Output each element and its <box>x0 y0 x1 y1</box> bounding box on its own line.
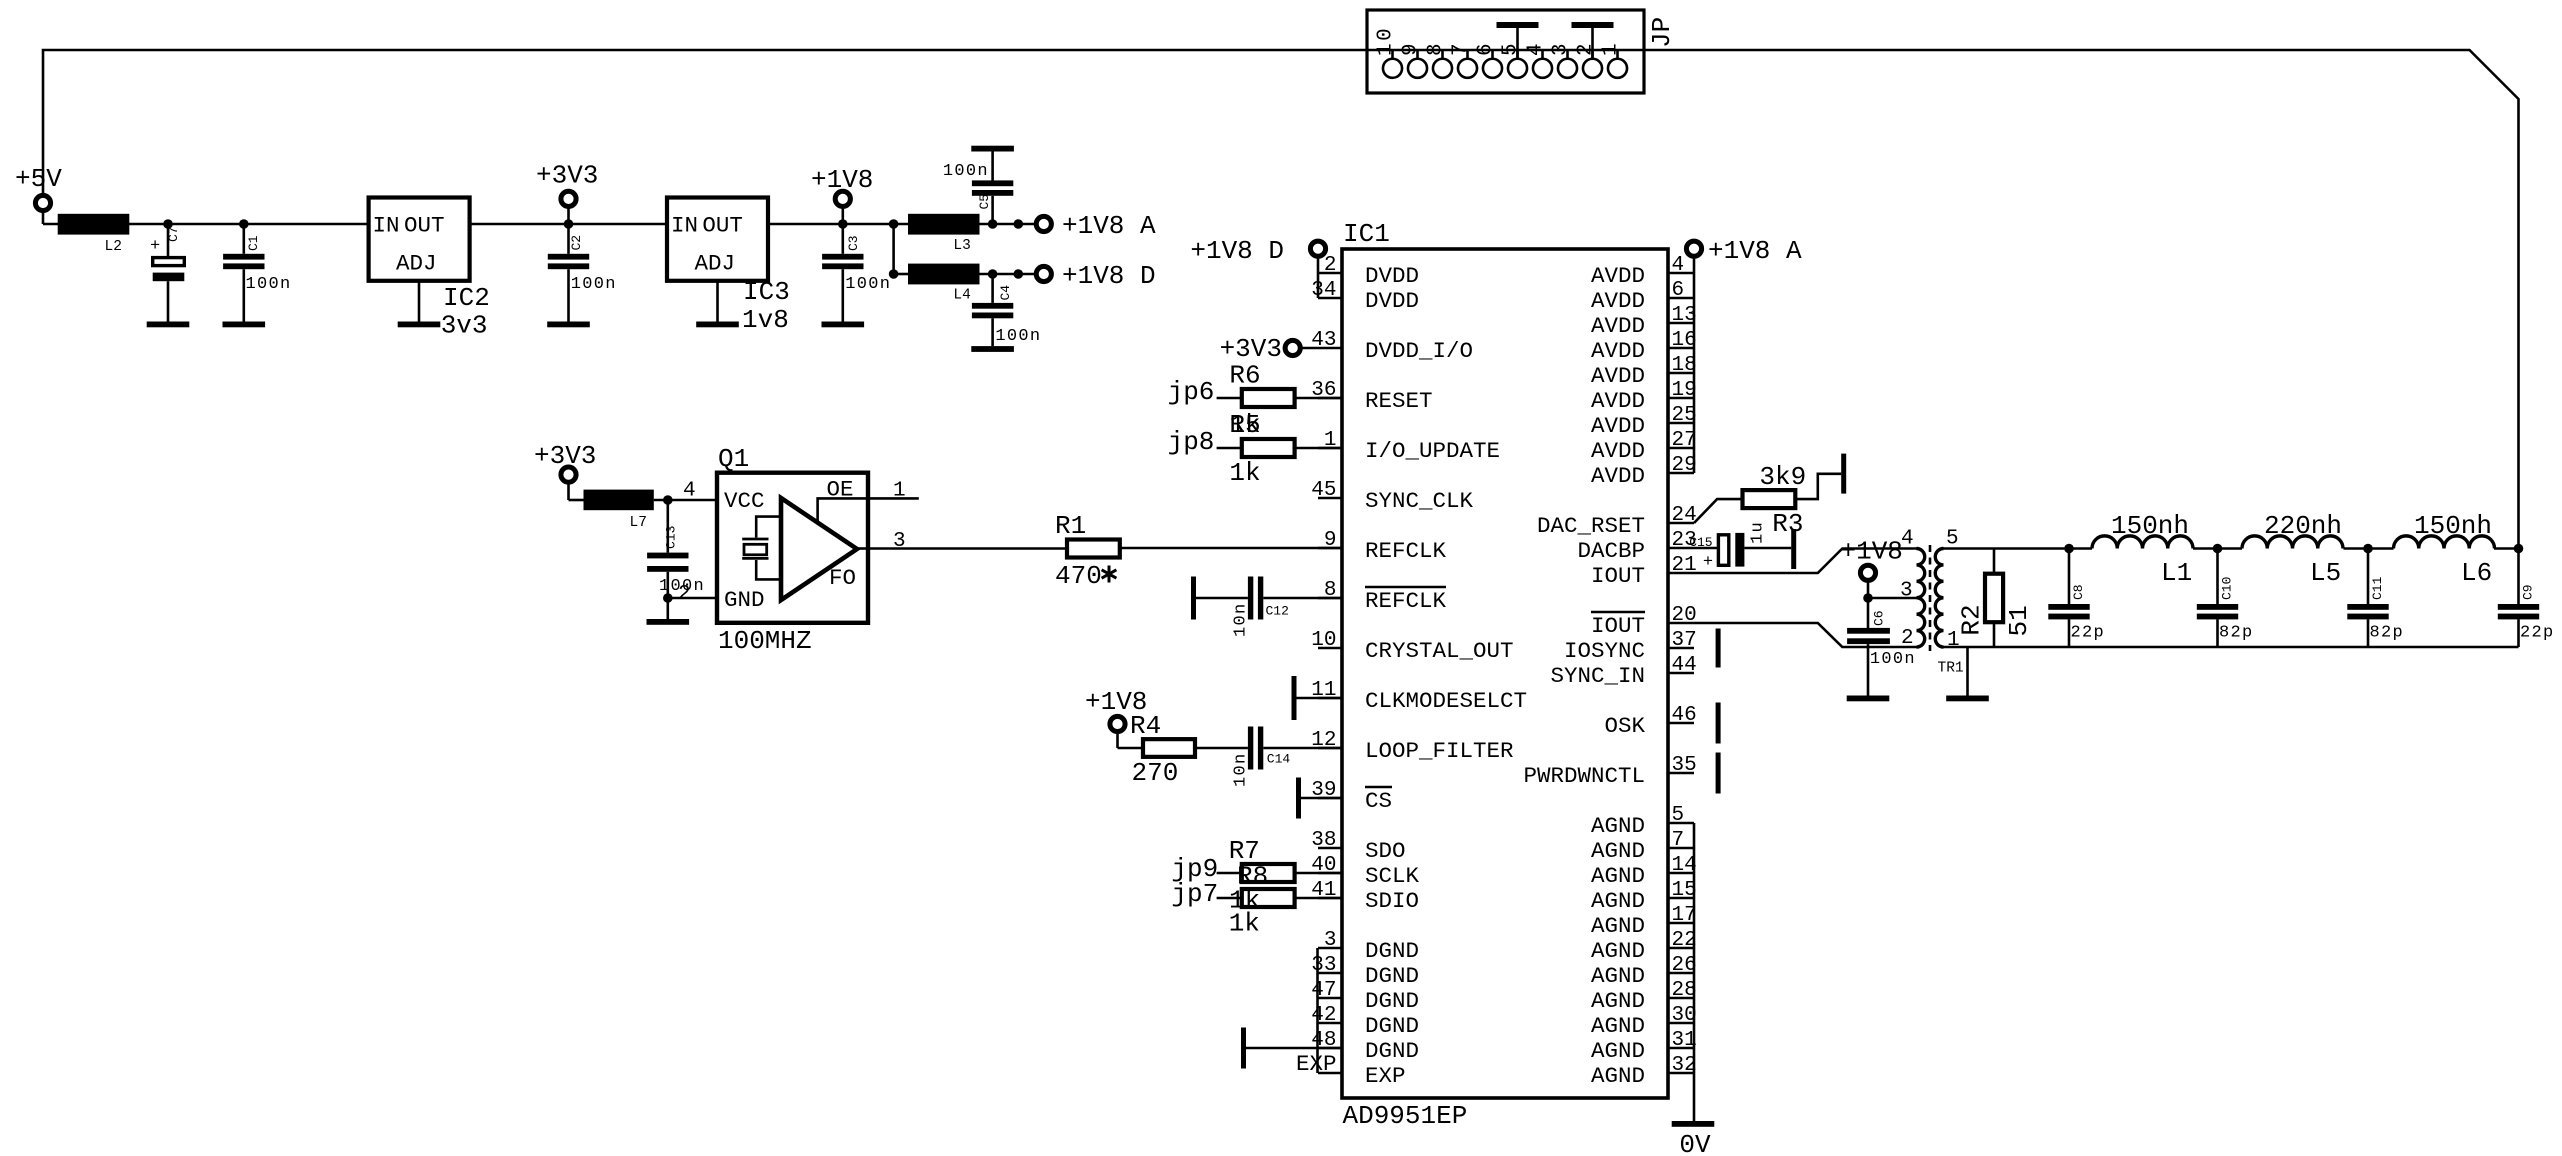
svg-text:36: 36 <box>1311 379 1336 402</box>
connector JP pin 4 <box>1533 59 1552 78</box>
svg-text:CS: CS <box>1365 788 1392 814</box>
connector JP pin 1 <box>1608 59 1627 78</box>
svg-text:IC2: IC2 <box>443 283 490 313</box>
svg-text:C6: C6 <box>1871 610 1886 626</box>
IC1 pin 11 CLKMODESELCT <box>1311 679 1527 714</box>
IC1 pin 37 IOSYNC <box>1564 629 1697 664</box>
junction <box>2363 544 2373 554</box>
svg-text:SDO: SDO <box>1365 838 1406 864</box>
junction <box>1014 219 1024 229</box>
svg-text:DGND: DGND <box>1365 988 1419 1014</box>
power terminal +3V3 <box>567 206 570 224</box>
power terminal +1V8 D ring <box>1310 241 1325 256</box>
svg-text:AGND: AGND <box>1591 1063 1645 1089</box>
capacitor C4 <box>972 274 1013 346</box>
ground <box>647 619 690 625</box>
svg-text:C14: C14 <box>1267 752 1291 767</box>
IC1 pin 12 LOOP_FILTER <box>1311 729 1513 764</box>
inductor L6 <box>2394 536 2495 549</box>
FO tap wire <box>857 547 868 550</box>
IC1 pin 8 REFCLK <box>1318 579 1447 614</box>
svg-text:IN: IN <box>671 213 698 239</box>
wire +3V3 to L7 <box>569 499 584 502</box>
svg-text:C7: C7 <box>166 226 181 242</box>
IC1 pin 17 AGND <box>1591 904 1697 939</box>
wire pin 39 to ground <box>1301 797 1342 800</box>
IC1 pin 32 AGND <box>1591 1054 1697 1089</box>
wire pin 23 to C15 <box>1694 547 1718 550</box>
IC1 pin 7 AGND <box>1591 829 1694 864</box>
svg-text:CLKMODESELCT: CLKMODESELCT <box>1365 688 1527 714</box>
ground (pin 35) <box>1716 753 1721 794</box>
IC1 pin 42 DGND <box>1311 1004 1419 1039</box>
svg-text:1v8: 1v8 <box>742 305 789 335</box>
ground <box>398 322 441 328</box>
svg-text:8: 8 <box>1425 41 1448 56</box>
svg-text:20: 20 <box>1672 604 1697 627</box>
svg-text:3: 3 <box>1324 929 1337 952</box>
capacitor C5 <box>972 151 1013 224</box>
transformer TR1 <box>1917 545 1944 651</box>
wire TR1 pin1 ground stub <box>1966 647 1969 696</box>
svg-text:OSK: OSK <box>1604 713 1645 739</box>
svg-text:L2: L2 <box>105 239 122 255</box>
svg-text:C1: C1 <box>246 235 261 251</box>
inductor L3 <box>908 214 980 235</box>
svg-text:+: + <box>1703 553 1715 572</box>
svg-text:3: 3 <box>1900 580 1913 603</box>
svg-text:R2: R2 <box>1956 604 1986 635</box>
svg-text:C8: C8 <box>2071 584 2086 600</box>
svg-text:REFCLK: REFCLK <box>1365 538 1447 564</box>
svg-text:AVDD: AVDD <box>1591 263 1645 289</box>
svg-text:100n: 100n <box>1870 650 1916 669</box>
svg-text:VCC: VCC <box>724 488 765 514</box>
wire L3 to terminal <box>980 223 1037 226</box>
svg-text:AVDD: AVDD <box>1591 463 1645 489</box>
svg-text:3: 3 <box>1550 41 1573 56</box>
svg-text:DVDD: DVDD <box>1365 288 1419 314</box>
svg-text:AGND: AGND <box>1591 1038 1645 1064</box>
wire R1 to IC1 REFCLK <box>1120 547 1342 550</box>
IC1 pin 44 SYNC_IN <box>1550 654 1696 689</box>
wire TR1 pin 5 to filter <box>1944 547 2093 550</box>
svg-text:8: 8 <box>1324 579 1337 602</box>
wire AVDD bus <box>1693 273 1696 473</box>
svg-text:AVDD: AVDD <box>1591 288 1645 314</box>
resistor R6 <box>1242 389 1295 407</box>
svg-text:2: 2 <box>1901 627 1914 650</box>
svg-text:+5V: +5V <box>15 164 62 194</box>
svg-text:4: 4 <box>1525 41 1548 56</box>
capacitor C2 <box>548 224 589 322</box>
oscillator Q1 <box>717 473 868 623</box>
svg-text:37: 37 <box>1672 629 1697 652</box>
capacitor C9 <box>2498 549 2539 648</box>
svg-text:4: 4 <box>683 480 696 503</box>
capacitor C15 (electrolytic 1u) <box>1718 533 1744 567</box>
IC1 pin 3 DGND <box>1318 929 1419 964</box>
connector JP pin 8 <box>1433 59 1452 78</box>
svg-text:1u: 1u <box>1748 521 1767 544</box>
svg-text:ADJ: ADJ <box>695 251 736 277</box>
svg-text:IOSYNC: IOSYNC <box>1564 638 1645 664</box>
svg-text:5: 5 <box>1500 41 1523 56</box>
power terminal +3V3 (Q1) <box>567 482 570 500</box>
ground (C15) <box>1791 529 1796 569</box>
svg-text:IC3: IC3 <box>743 277 790 307</box>
inductor L2 <box>58 214 130 235</box>
svg-text:SYNC_CLK: SYNC_CLK <box>1365 488 1474 514</box>
svg-text:33: 33 <box>1311 954 1336 977</box>
svg-text:EXP: EXP <box>1365 1063 1406 1089</box>
svg-text:12: 12 <box>1311 729 1336 752</box>
IC1 pin 27 AVDD <box>1591 429 1697 464</box>
IC1 pin 26 AGND <box>1591 954 1697 989</box>
junction <box>2064 544 2074 554</box>
OE tap wire <box>818 498 868 521</box>
resistor R4 <box>1143 739 1195 757</box>
svg-text:Q1: Q1 <box>718 444 749 474</box>
junction <box>564 219 574 229</box>
wire +1V8 to R4 <box>1118 747 1144 750</box>
capacitor C1 <box>223 224 264 322</box>
svg-text:3k9: 3k9 <box>1759 462 1806 492</box>
svg-text:OUT: OUT <box>702 213 743 239</box>
svg-text:SYNC_IN: SYNC_IN <box>1550 663 1645 689</box>
junction <box>663 593 673 603</box>
svg-text:51: 51 <box>2004 605 2034 636</box>
svg-text:AGND: AGND <box>1591 888 1645 914</box>
connector JP pin 2 <box>1583 59 1602 78</box>
svg-text:100n: 100n <box>246 275 292 294</box>
svg-text:C4: C4 <box>998 285 1013 301</box>
IC1 pin 35 PWRDWNCTL <box>1523 754 1696 789</box>
ground (R3) <box>1841 454 1846 494</box>
connector JP pin 5 <box>1508 59 1527 78</box>
resistor R3 <box>1743 490 1796 508</box>
junction <box>163 219 173 229</box>
IC1 pin 40 SCLK <box>1311 854 1419 889</box>
wire R4 to C14 <box>1195 747 1248 750</box>
ground (C12) <box>1191 577 1196 620</box>
svg-text:AGND: AGND <box>1591 938 1645 964</box>
svg-text:9: 9 <box>1324 529 1337 552</box>
wire to L4 <box>894 273 908 276</box>
IC1 pin 20 IOUT <box>1591 604 1697 639</box>
wire +5V rail <box>43 223 369 226</box>
IC1 pin 45 SYNC_CLK <box>1311 479 1473 514</box>
resistor R1 <box>1067 540 1120 558</box>
wire jp8 <box>1217 447 1242 450</box>
power terminal +1V8 D (IC1) <box>1317 256 1320 273</box>
svg-text:24: 24 <box>1672 504 1697 527</box>
svg-text:220nh: 220nh <box>2264 511 2342 541</box>
IC1 pin 34 DVDD <box>1311 279 1419 314</box>
svg-text:7: 7 <box>1672 829 1685 852</box>
resistor R5 <box>1242 439 1295 457</box>
ground (DGND) <box>1241 1028 1246 1069</box>
svg-text:L6: L6 <box>2461 558 2492 588</box>
wire C14 to pin 12 <box>1263 747 1342 750</box>
output terminal +1V8 D <box>1036 266 1051 281</box>
wire L6 to C9 <box>2494 547 2519 550</box>
svg-text:L3: L3 <box>953 238 970 254</box>
svg-text:39: 39 <box>1311 779 1336 802</box>
svg-text:AVDD: AVDD <box>1591 363 1645 389</box>
IC1 pin EXP EXP <box>1296 1051 1406 1089</box>
svg-text:2: 2 <box>1324 254 1337 277</box>
wire +3V3 rail <box>470 223 667 226</box>
svg-text:82p: 82p <box>2219 624 2254 643</box>
svg-text:C11: C11 <box>2370 576 2385 600</box>
svg-text:21: 21 <box>1672 554 1697 577</box>
connector JP pin 9 <box>1408 59 1427 78</box>
wire +1V8 rail <box>768 223 908 226</box>
svg-text:L4: L4 <box>953 288 970 304</box>
svg-text:1: 1 <box>1324 429 1337 452</box>
svg-text:10n: 10n <box>1232 602 1251 637</box>
svg-text:IOUT: IOUT <box>1591 563 1645 589</box>
svg-text:C5: C5 <box>977 194 992 210</box>
svg-text:DGND: DGND <box>1365 938 1419 964</box>
svg-text:1: 1 <box>1600 41 1623 56</box>
IC1 pin 30 AGND <box>1591 1004 1697 1039</box>
power terminal +5V <box>35 195 50 210</box>
IC1 pin 14 AGND <box>1591 854 1697 889</box>
wire Q1 OE pin 1 (n.c.) <box>868 497 919 500</box>
svg-text:100n: 100n <box>943 162 989 181</box>
svg-text:DGND: DGND <box>1365 963 1419 989</box>
capacitor C14 <box>1248 727 1263 770</box>
resistor R2 <box>1985 549 2003 648</box>
svg-text:AVDD: AVDD <box>1591 388 1645 414</box>
svg-text:C10: C10 <box>2220 577 2235 600</box>
svg-text:100n: 100n <box>845 275 891 294</box>
svg-text:EXP: EXP <box>1296 1051 1337 1077</box>
wire bottom rail <box>1944 646 2519 649</box>
svg-text:AGND: AGND <box>1591 913 1645 939</box>
svg-text:9: 9 <box>1400 41 1423 56</box>
connector JP pin 10 <box>1383 59 1402 78</box>
wire IC2 ADJ to ground <box>418 281 421 322</box>
svg-text:DGND: DGND <box>1365 1013 1419 1039</box>
svg-text:82p: 82p <box>2370 624 2405 643</box>
wire jp6 <box>1217 397 1242 400</box>
svg-text:OUT: OUT <box>404 213 445 239</box>
IC1 pin 48 DGND <box>1311 1029 1419 1064</box>
wire jp9 <box>1217 872 1242 875</box>
wire pin 24 to R3 <box>1694 499 1743 523</box>
svg-text:DGND: DGND <box>1365 1038 1419 1064</box>
inductor L5 <box>2242 536 2343 549</box>
wire L1 to C10 <box>2193 547 2242 550</box>
wire DGND bus <box>1316 948 1319 1073</box>
svg-text:4: 4 <box>1901 528 1914 551</box>
svg-text:48: 48 <box>1311 1029 1336 1052</box>
wire +5V / filter output net <box>43 50 2519 549</box>
IC1 pin 41 SDIO <box>1311 879 1419 914</box>
IC1 pin 28 AGND <box>1591 979 1697 1014</box>
ground (JP pin 5) <box>1497 22 1539 58</box>
svg-text:45: 45 <box>1311 479 1336 502</box>
IC1 pin 38 SDO <box>1311 829 1405 864</box>
svg-text:AGND: AGND <box>1591 813 1645 839</box>
wire DVDD bus <box>1317 273 1320 298</box>
svg-text:100MHZ: 100MHZ <box>718 626 812 656</box>
power terminal +1V8 (TR1 tap) <box>1867 580 1870 598</box>
svg-text:+1V8: +1V8 <box>811 165 873 195</box>
svg-text:38: 38 <box>1311 829 1336 852</box>
wire split to L4 <box>892 224 895 274</box>
svg-text:IN: IN <box>373 213 400 239</box>
power terminal +1V8 A (IC1) <box>1693 256 1696 273</box>
IC1 pin 21 IOUT <box>1591 554 1697 589</box>
power terminal +3V3 ring <box>561 191 576 206</box>
svg-text:AGND: AGND <box>1591 1013 1645 1039</box>
power terminal +1V8 ring (R4) <box>1110 716 1125 731</box>
wire R3 to ground <box>1795 474 1841 499</box>
IC1 pin 19 AVDD <box>1591 379 1697 414</box>
resistor R8 <box>1242 889 1295 907</box>
svg-text:+1V8 A: +1V8 A <box>1708 236 1802 266</box>
svg-text:LOOP_FILTER: LOOP_FILTER <box>1365 738 1514 764</box>
connector JP <box>1367 10 1644 93</box>
svg-text:6: 6 <box>1672 279 1685 302</box>
IC1 pin 39 CS <box>1311 779 1392 814</box>
svg-text:150nh: 150nh <box>2414 511 2492 541</box>
power terminal +1V8 ring (TR1) <box>1860 565 1875 580</box>
svg-text:+1V8: +1V8 <box>1841 537 1903 567</box>
junction <box>1863 593 1873 603</box>
svg-text:10n: 10n <box>1232 752 1251 787</box>
svg-text:L7: L7 <box>630 515 647 531</box>
svg-text:AD9951EP: AD9951EP <box>1343 1101 1468 1131</box>
svg-text:1k: 1k <box>1229 458 1260 488</box>
svg-text:10: 10 <box>1375 26 1398 56</box>
wire R5 to pin 1 <box>1295 447 1342 450</box>
svg-text:C9: C9 <box>2521 584 2536 600</box>
svg-text:41: 41 <box>1311 879 1336 902</box>
capacitor C10 <box>2197 549 2238 648</box>
power terminal +1V8 A ring <box>1686 241 1701 256</box>
IC1 pin 10 CRYSTAL_OUT <box>1311 629 1513 664</box>
svg-text:5: 5 <box>1946 528 1959 551</box>
svg-text:100n: 100n <box>571 275 617 294</box>
svg-text:I/O_UPDATE: I/O_UPDATE <box>1365 438 1500 464</box>
power terminal +1V8 ring <box>835 191 850 206</box>
IC1 pin 43 DVDD_I/O <box>1311 329 1473 364</box>
capacitor C13 <box>647 500 688 598</box>
IC1 pin 15 AGND <box>1591 879 1697 914</box>
svg-text:L5: L5 <box>2310 558 2341 588</box>
capacitor C8 <box>2048 549 2089 648</box>
svg-text:AGND: AGND <box>1591 963 1645 989</box>
amplifier triangle (Q1) <box>781 498 857 600</box>
svg-text:46: 46 <box>1672 704 1697 727</box>
svg-text:R6: R6 <box>1229 361 1260 391</box>
wire L5 to C11 <box>2344 547 2394 550</box>
svg-text:RESET: RESET <box>1365 388 1433 414</box>
svg-text:jp8: jp8 <box>1168 427 1215 457</box>
inductor L4 <box>908 264 980 285</box>
svg-text:C13: C13 <box>663 526 678 549</box>
svg-text:PWRDWNCTL: PWRDWNCTL <box>1523 763 1645 789</box>
ground (pins 37) <box>1716 629 1721 668</box>
capacitor C7 (electrolytic) <box>153 224 185 322</box>
wire DGND ground <box>1246 1047 1342 1050</box>
IC1 pin 9 REFCLK <box>1318 529 1447 564</box>
ground <box>696 322 739 328</box>
IC1 pin 6 AVDD <box>1591 279 1694 314</box>
svg-text:+: + <box>150 237 162 256</box>
ground <box>971 346 1014 352</box>
wire pin 11 to ground <box>1297 697 1343 700</box>
svg-text:35: 35 <box>1672 754 1697 777</box>
wire ground to C12 <box>1196 597 1248 600</box>
svg-text:470: 470 <box>1055 561 1102 591</box>
junction <box>988 219 998 229</box>
svg-text:0V: 0V <box>1679 1130 1711 1156</box>
crystal symbol (Q1) <box>742 517 781 580</box>
svg-text:TR1: TR1 <box>1938 661 1964 677</box>
svg-text:22p: 22p <box>2071 624 2106 643</box>
svg-text:IOUT: IOUT <box>1591 613 1645 639</box>
connector JP pin 7 <box>1458 59 1477 78</box>
svg-text:AVDD: AVDD <box>1591 313 1645 339</box>
junction <box>2213 544 2223 554</box>
wire center tap to TR1 pin 3 <box>1868 597 1917 600</box>
wire Q1 FO to R1 <box>868 547 1067 550</box>
junction <box>889 269 899 279</box>
resistor R7 <box>1242 864 1295 882</box>
wire R8 to pin 41 <box>1295 897 1342 900</box>
IC1 pin 16 AVDD <box>1591 329 1697 364</box>
svg-text:AVDD: AVDD <box>1591 413 1645 439</box>
wire pin 20 /IOUT to TR1 pin 2 <box>1694 623 1917 647</box>
svg-text:C3: C3 <box>846 235 861 251</box>
IC1 pin 33 DGND <box>1311 954 1419 989</box>
junction <box>838 219 848 229</box>
ground (JP pin 2) <box>1572 22 1614 58</box>
junction <box>889 219 899 229</box>
svg-text:6: 6 <box>1475 41 1498 56</box>
IC1 pin 29 AVDD <box>1591 454 1697 489</box>
power terminal +3V3 ring (pin43) <box>1285 340 1300 355</box>
IC1 pin 24 DAC_RSET <box>1537 504 1697 539</box>
junction <box>1014 269 1024 279</box>
output terminal +1V8 A <box>1036 216 1051 231</box>
capacitor C12 <box>1248 577 1263 620</box>
wire jp7 <box>1217 897 1242 900</box>
ground <box>147 322 190 328</box>
connector JP pin 6 <box>1483 59 1502 78</box>
svg-text:+3V3: +3V3 <box>534 441 596 471</box>
ground <box>971 146 1014 152</box>
svg-text:5: 5 <box>1672 804 1685 827</box>
IC1 pin 4 AVDD <box>1591 254 1694 289</box>
svg-text:IC1: IC1 <box>1343 219 1390 249</box>
svg-text:2: 2 <box>678 583 691 606</box>
junction <box>2514 544 2524 554</box>
power terminal +1V8 (R4) <box>1116 732 1119 749</box>
IC1 pin 18 AVDD <box>1591 354 1697 389</box>
ground <box>547 322 590 328</box>
svg-text:C15: C15 <box>1689 535 1712 550</box>
IC1 pin 5 AGND <box>1591 804 1694 839</box>
svg-text:+1V8 D: +1V8 D <box>1062 261 1156 291</box>
junction <box>988 269 998 279</box>
